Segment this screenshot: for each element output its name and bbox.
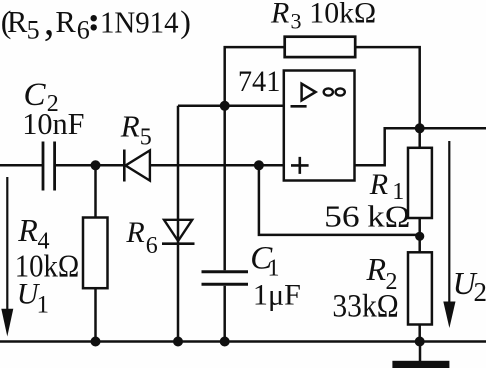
- svg-text:R: R: [120, 109, 140, 144]
- svg-text:741: 741: [238, 65, 281, 98]
- svg-text:1N914: 1N914: [100, 4, 179, 39]
- svg-text:1: 1: [37, 292, 50, 319]
- svg-text:3: 3: [291, 9, 302, 34]
- svg-text:): ): [180, 3, 191, 39]
- svg-text:6: 6: [77, 16, 90, 45]
- svg-text:R: R: [17, 212, 38, 248]
- svg-text:1: 1: [268, 256, 280, 282]
- svg-text:kΩ: kΩ: [367, 198, 410, 233]
- svg-text:R: R: [366, 251, 387, 287]
- svg-text:5: 5: [140, 125, 152, 151]
- svg-text:10nF: 10nF: [22, 106, 84, 141]
- svg-text:,: ,: [44, 0, 55, 45]
- svg-text:R: R: [55, 5, 76, 39]
- svg-text:5: 5: [27, 16, 40, 45]
- svg-text:R: R: [369, 168, 388, 201]
- svg-text:56: 56: [324, 198, 360, 233]
- svg-text:R: R: [7, 5, 28, 39]
- svg-text:33kΩ: 33kΩ: [332, 289, 398, 325]
- svg-text:6: 6: [146, 233, 158, 259]
- svg-text:10kΩ: 10kΩ: [309, 0, 376, 29]
- svg-text:R: R: [125, 216, 144, 249]
- svg-text:R: R: [270, 0, 289, 29]
- svg-text:2: 2: [474, 277, 486, 307]
- svg-text:1μF: 1μF: [253, 279, 301, 312]
